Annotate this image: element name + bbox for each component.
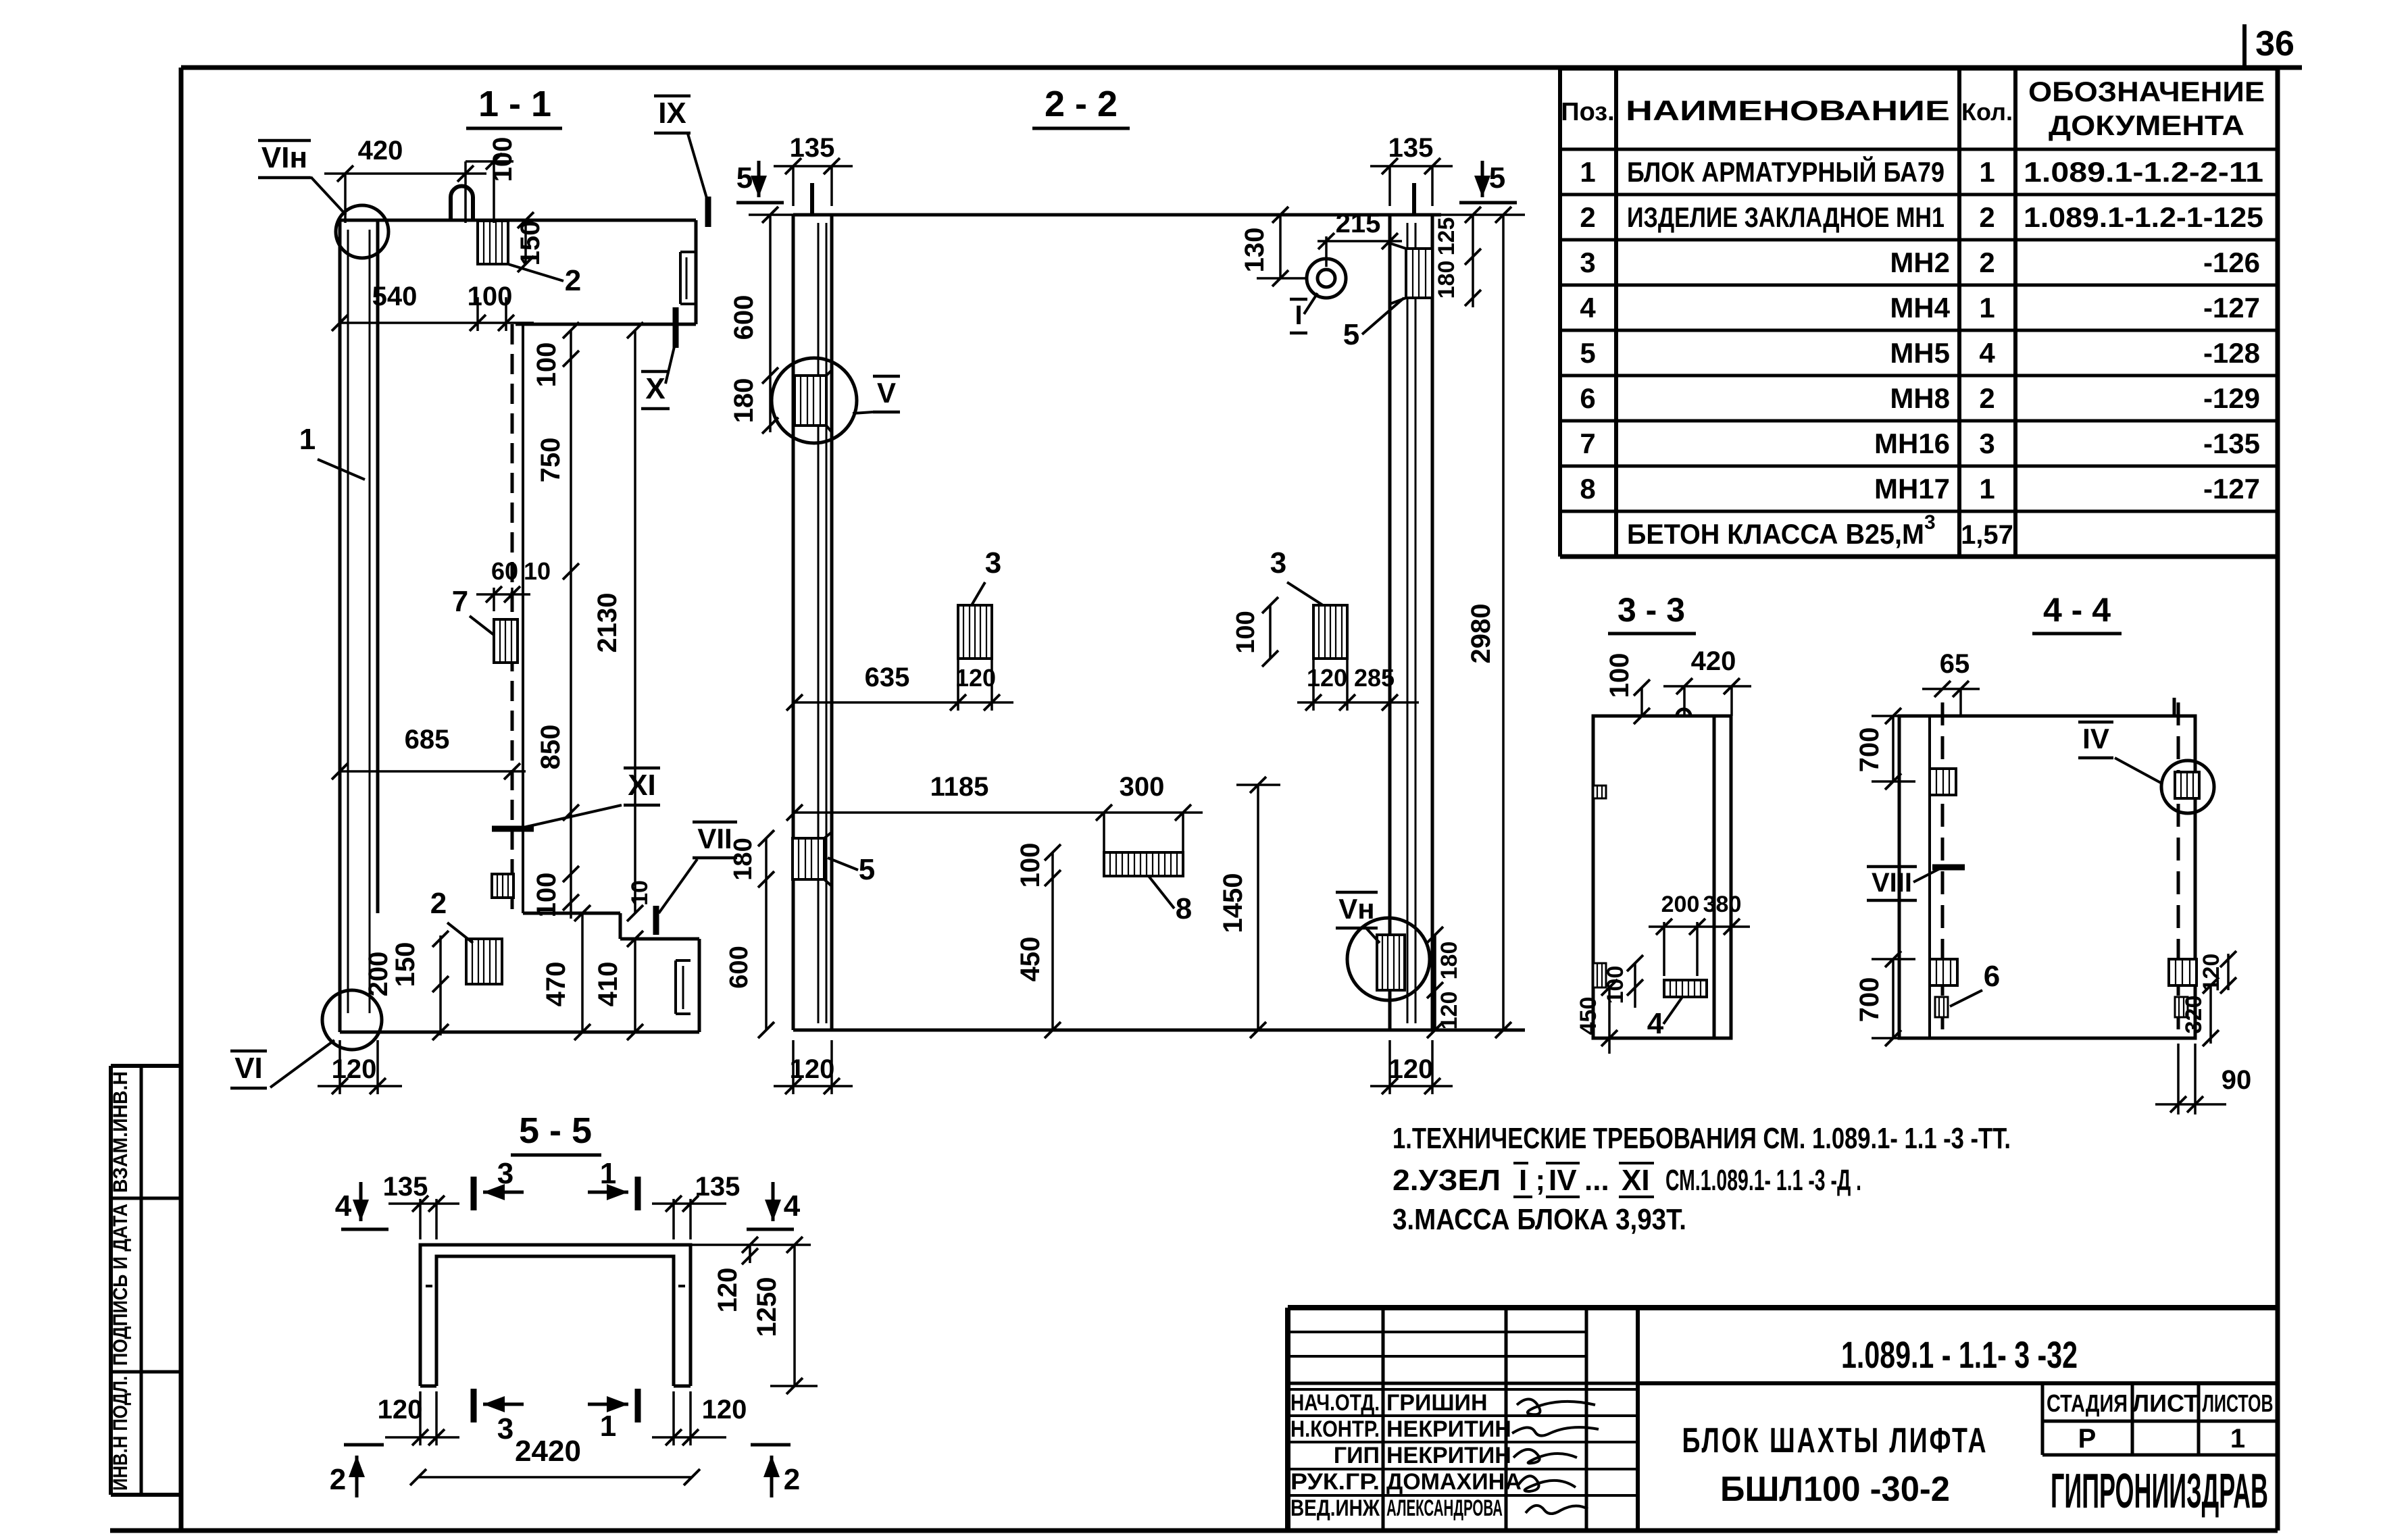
title stage grid xyxy=(2041,1383,2045,1455)
svg-text:215: 215 xyxy=(1336,209,1381,238)
svg-text:VI: VI xyxy=(234,1052,263,1085)
dim 135 right (2-2) xyxy=(1388,166,1391,206)
svg-text:3: 3 xyxy=(497,1412,513,1445)
svg-text:410: 410 xyxy=(593,962,623,1007)
svg-text:ЛИСТ: ЛИСТ xyxy=(2132,1389,2199,1417)
section 4-4 inner wall face xyxy=(1928,716,1931,1038)
sheet frame xyxy=(181,66,2302,70)
plate small below 6 xyxy=(1935,997,1948,1017)
svg-text:XI: XI xyxy=(1622,1164,1650,1197)
svg-text:2 - 2: 2 - 2 xyxy=(1045,84,1118,124)
svg-text:200: 200 xyxy=(363,952,393,997)
svg-text:1: 1 xyxy=(1979,473,1995,505)
dim 2130 (1-1) xyxy=(634,330,636,913)
dim 215 (2-2) xyxy=(1325,236,1328,267)
svg-text:120: 120 xyxy=(378,1395,423,1424)
svg-text:IV: IV xyxy=(1549,1164,1577,1197)
plate 8 (MN17) xyxy=(1104,852,1183,876)
plate mid small (MN16) xyxy=(492,874,513,898)
weld tick VIII xyxy=(1932,865,1965,871)
svg-text:120: 120 xyxy=(955,664,996,692)
svg-text:МН2: МН2 xyxy=(1890,247,1950,278)
node circle V xyxy=(772,358,857,443)
svg-text:VII: VII xyxy=(697,823,732,854)
svg-text:3.МАССА БЛОКА 3,93Т.: 3.МАССА БЛОКА 3,93Т. xyxy=(1393,1203,1686,1236)
svg-text:IV: IV xyxy=(2082,723,2109,754)
section 2-2 bottom edge xyxy=(793,1029,1525,1032)
dim chain right of hidden line (100/750/850/100) xyxy=(570,330,572,919)
weld tick XI xyxy=(492,826,534,832)
svg-text:470: 470 xyxy=(541,962,571,1007)
svg-text:НАЧ.ОТД.: НАЧ.ОТД. xyxy=(1290,1390,1380,1416)
dim 600/180 left top (2-2) xyxy=(769,215,772,432)
dim 120/285 (2-2) xyxy=(1297,701,1419,704)
svg-text:8: 8 xyxy=(1580,473,1595,505)
dim 135 right (5-5) xyxy=(672,1199,675,1239)
svg-text:ИЗДЕЛИЕ ЗАКЛАДНОЕ МН1: ИЗДЕЛИЕ ЗАКЛАДНОЕ МН1 xyxy=(1627,201,1945,233)
svg-text:100: 100 xyxy=(1603,966,1628,1004)
stamp column box xyxy=(111,1064,181,1068)
plate 6 (4-4) xyxy=(1930,959,1957,985)
plate 7 (MN16) xyxy=(494,619,518,663)
dim 410 (1-1) xyxy=(634,939,636,1032)
svg-text:2: 2 xyxy=(565,264,581,297)
svg-text:5: 5 xyxy=(1580,337,1595,369)
svg-text:БШЛ100 -30-2: БШЛ100 -30-2 xyxy=(1720,1470,1950,1509)
weld tick IX xyxy=(705,197,711,227)
section 1-1 bottom flange end bracket xyxy=(676,959,691,962)
dim 120 bottom-right (5-5) xyxy=(672,1391,675,1445)
svg-text:65: 65 xyxy=(1940,649,1970,679)
node circle VIn xyxy=(336,205,388,258)
svg-text:5: 5 xyxy=(1489,161,1505,195)
section 2-2 left wall xyxy=(792,215,795,1030)
svg-text:450: 450 xyxy=(1015,937,1045,982)
dim 100 top (1-1) xyxy=(493,161,495,223)
svg-text:2: 2 xyxy=(1979,382,1995,414)
svg-text:420: 420 xyxy=(358,136,403,165)
svg-text:120: 120 xyxy=(713,1268,743,1313)
svg-text:100: 100 xyxy=(488,137,518,182)
section 4-4 hidden lines xyxy=(1941,702,1945,1038)
svg-text:СМ.1.089.1- 1.1 -3 -Д .: СМ.1.089.1- 1.1 -3 -Д . xyxy=(1665,1164,1861,1197)
page number 36 box tick xyxy=(2242,24,2247,68)
svg-text:2: 2 xyxy=(1979,201,1995,233)
svg-text:135: 135 xyxy=(383,1172,428,1202)
svg-text:1: 1 xyxy=(600,1410,616,1443)
plate 3-3 edge a xyxy=(1593,786,1606,798)
plate 3 left (MN2) xyxy=(958,605,992,659)
dim 470 (1-1) xyxy=(581,913,584,1032)
svg-text:ПОДПИСЬ И ДАТА: ПОДПИСЬ И ДАТА xyxy=(109,1204,132,1366)
svg-text:МН16: МН16 xyxy=(1874,428,1950,459)
svg-text:4: 4 xyxy=(784,1189,801,1223)
svg-text:VIII: VIII xyxy=(1872,868,1912,898)
plate small lower-right xyxy=(2175,997,2188,1017)
svg-text:МН8: МН8 xyxy=(1890,382,1950,414)
plate 4-4 upper-left xyxy=(1930,769,1956,795)
svg-text:6: 6 xyxy=(1984,960,2000,993)
svg-text:135: 135 xyxy=(790,133,835,163)
svg-text:5 - 5: 5 - 5 xyxy=(519,1110,592,1151)
dim 120/1250 right (5-5) xyxy=(749,1245,751,1263)
plate 2 bottom (MN1) xyxy=(466,939,502,984)
dim 135 left (5-5) xyxy=(419,1199,422,1239)
section 1-1 hidden inner edge xyxy=(511,324,514,913)
svg-text:4 - 4: 4 - 4 xyxy=(2043,591,2111,629)
svg-text:НАИМЕНОВАНИЕ: НАИМЕНОВАНИЕ xyxy=(1626,95,1950,126)
svg-text:135: 135 xyxy=(1388,133,1434,163)
svg-text:Vн: Vн xyxy=(1338,893,1374,925)
svg-text:4: 4 xyxy=(1647,1007,1664,1040)
title block designation box line xyxy=(1638,1381,2278,1385)
svg-text:РУК.ГР.: РУК.ГР. xyxy=(1290,1469,1380,1495)
svg-text:I: I xyxy=(1295,301,1302,330)
svg-text:700: 700 xyxy=(1855,727,1884,773)
svg-text:1: 1 xyxy=(1979,292,1995,324)
svg-text:100: 100 xyxy=(532,342,561,388)
dim 450 (3-3) xyxy=(1608,987,1611,1054)
section 3-3 outline xyxy=(1593,716,1731,1038)
parts table grid xyxy=(1560,66,2278,71)
marker 1 bottom xyxy=(635,1389,641,1422)
svg-text:90: 90 xyxy=(2222,1065,2252,1095)
svg-text:НЕКРИТИН: НЕКРИТИН xyxy=(1386,1416,1511,1442)
section 5-5 channel xyxy=(420,1245,691,1386)
node circle I (lifting loop) xyxy=(1307,259,1346,298)
svg-text:100: 100 xyxy=(532,873,561,918)
section 3-3 loop xyxy=(1677,709,1690,716)
section 1-1 left wall xyxy=(338,220,342,1032)
svg-text:120: 120 xyxy=(332,1054,377,1084)
svg-text:100: 100 xyxy=(468,282,513,311)
svg-text:VIн: VIн xyxy=(261,141,307,174)
dim 2420 (5-5) xyxy=(418,1476,692,1479)
plate 3 right (MN2) xyxy=(1313,605,1347,659)
svg-text:1.089.1 - 1.1- 3 -32: 1.089.1 - 1.1- 3 -32 xyxy=(1841,1333,2078,1376)
svg-text:2980: 2980 xyxy=(1466,604,1496,664)
svg-text:100: 100 xyxy=(1605,653,1634,698)
svg-text:10: 10 xyxy=(524,557,551,585)
lifting loop 1-1 xyxy=(449,197,453,220)
svg-text:I ;: I ; xyxy=(1519,1164,1545,1197)
svg-text:3: 3 xyxy=(1979,428,1995,459)
svg-text:Р: Р xyxy=(2078,1424,2097,1454)
svg-text:ВЗАМ.ИНВ.Н: ВЗАМ.ИНВ.Н xyxy=(109,1071,132,1193)
dim 60/10 (plate7) xyxy=(493,588,495,611)
svg-text:3: 3 xyxy=(985,546,1001,580)
dim 1450 (2-2) xyxy=(1257,785,1259,1030)
dim 135 left (2-2) xyxy=(792,166,795,206)
svg-text:1450: 1450 xyxy=(1218,873,1248,933)
dim 180/120 right bottom (2-2) xyxy=(1434,935,1436,1030)
dim 100/450 (plate8) xyxy=(1051,852,1054,1030)
svg-text:ДОМАХИНА: ДОМАХИНА xyxy=(1386,1469,1522,1495)
svg-text:МН5: МН5 xyxy=(1890,337,1950,369)
weld tick VII xyxy=(653,906,659,935)
svg-text:2420: 2420 xyxy=(515,1435,581,1468)
svg-text:2: 2 xyxy=(430,887,447,920)
marker 3 bottom xyxy=(471,1389,477,1422)
svg-text:1: 1 xyxy=(600,1157,616,1190)
svg-text:150: 150 xyxy=(391,942,420,987)
svg-text:600: 600 xyxy=(725,946,753,988)
svg-text:125: 125 xyxy=(1434,217,1459,256)
svg-text:-128: -128 xyxy=(2203,337,2260,369)
section 2-2 top edge xyxy=(793,213,1441,217)
svg-text:-127: -127 xyxy=(2203,292,2260,324)
dim 420 (1-1) xyxy=(344,174,347,223)
svg-text:180: 180 xyxy=(1436,942,1462,980)
svg-text:750: 750 xyxy=(536,438,566,483)
svg-text:120: 120 xyxy=(702,1395,747,1424)
svg-text:-126: -126 xyxy=(2203,247,2260,278)
svg-text:100: 100 xyxy=(1232,611,1260,653)
svg-text:3: 3 xyxy=(1580,247,1595,278)
svg-text:5: 5 xyxy=(1343,318,1359,351)
svg-text:540: 540 xyxy=(372,282,418,311)
svg-text:1: 1 xyxy=(1580,156,1595,188)
section 2-2 loop ticks xyxy=(810,183,814,215)
svg-text:450: 450 xyxy=(1576,997,1601,1035)
svg-text:БЛОК ШАХТЫ ЛИФТА: БЛОК ШАХТЫ ЛИФТА xyxy=(1682,1421,1988,1460)
plate 4 (3-3) xyxy=(1664,980,1707,997)
svg-text:1250: 1250 xyxy=(752,1277,782,1337)
dim 700 top (4-4) xyxy=(1892,716,1895,781)
dim 65 (4-4) xyxy=(1959,688,1962,716)
dim 420 (3-3) xyxy=(1683,686,1686,716)
svg-text:7: 7 xyxy=(1580,428,1595,459)
section 1-1 top flange end bracket xyxy=(680,251,696,253)
svg-text:180: 180 xyxy=(729,838,757,880)
svg-text:Поз.: Поз. xyxy=(1561,98,1614,126)
dim 200/380 (3-3) xyxy=(1663,922,1665,976)
svg-text:60: 60 xyxy=(491,557,518,585)
svg-text:1.089.1-1.2-2-11: 1.089.1-1.2-2-11 xyxy=(2024,156,2263,188)
svg-text:IX: IX xyxy=(658,97,686,130)
title block columns xyxy=(1382,1308,1385,1531)
node circle Vn xyxy=(1347,918,1430,1000)
weld tick X xyxy=(673,307,679,348)
dim 100 (3-3 left) xyxy=(1634,963,1636,1008)
svg-text:36: 36 xyxy=(2255,24,2294,63)
marker 2 right xyxy=(751,1443,791,1447)
section 1-1 bottom flange xyxy=(523,912,620,915)
svg-text:180: 180 xyxy=(1434,261,1459,299)
svg-text:5: 5 xyxy=(859,853,875,886)
dim 1185/300 (2-2) xyxy=(795,811,1203,814)
svg-text:120: 120 xyxy=(790,1054,835,1084)
svg-text:НЕКРИТИН: НЕКРИТИН xyxy=(1386,1443,1511,1468)
svg-text:БЛОК АРМАТУРНЫЙ БА79: БЛОК АРМАТУРНЫЙ БА79 xyxy=(1627,155,1945,188)
svg-text:300: 300 xyxy=(1120,772,1165,802)
marker 1 top xyxy=(635,1177,641,1210)
svg-text:2130: 2130 xyxy=(593,593,622,653)
svg-text:700: 700 xyxy=(1855,977,1884,1023)
plate 2 top (MN1) xyxy=(478,221,508,264)
marker 4 right xyxy=(772,1182,775,1221)
svg-text:ИНВ.Н ПОДЛ.: ИНВ.Н ПОДЛ. xyxy=(109,1376,132,1491)
title block left rows xyxy=(1288,1331,1586,1333)
svg-text:2.УЗЕЛ: 2.УЗЕЛ xyxy=(1393,1164,1501,1197)
plate IV (MN8) xyxy=(2175,772,2199,798)
section marker 5 down-right xyxy=(1481,161,1484,197)
svg-text:1: 1 xyxy=(2230,1424,2245,1454)
svg-text:2: 2 xyxy=(784,1463,800,1496)
svg-text:ГРИШИН: ГРИШИН xyxy=(1386,1390,1488,1416)
svg-text:1: 1 xyxy=(299,423,316,456)
svg-text:АЛЕКСАНДРОВА: АЛЕКСАНДРОВА xyxy=(1386,1495,1503,1521)
svg-text:8: 8 xyxy=(1176,892,1192,925)
svg-text:635: 635 xyxy=(865,663,910,692)
section 5-5 leg marks xyxy=(426,1285,432,1287)
svg-text:ДОКУМЕНТА: ДОКУМЕНТА xyxy=(2049,109,2244,141)
section 4-4 outline xyxy=(1899,716,2195,1038)
svg-text:МН17: МН17 xyxy=(1874,473,1950,505)
svg-text:5: 5 xyxy=(736,161,753,195)
svg-text:850: 850 xyxy=(536,725,566,770)
dim 120 below left wall (2-2) xyxy=(792,1040,795,1094)
svg-text:10: 10 xyxy=(627,880,653,906)
svg-text:320: 320 xyxy=(2181,996,2207,1034)
svg-text:3: 3 xyxy=(1924,511,1936,534)
dim 90 (4-4 bottom) xyxy=(2177,1044,2180,1114)
dim 540/100 (1-1) xyxy=(340,322,534,324)
plate 4-4 lower-right xyxy=(2169,959,2197,985)
svg-text:ГИПРОНИИЗДРАВ: ГИПРОНИИЗДРАВ xyxy=(2051,1464,2268,1518)
svg-text:3: 3 xyxy=(497,1157,513,1190)
svg-text:2: 2 xyxy=(1580,201,1595,233)
dim 320 (4-4 right) xyxy=(2209,985,2212,1044)
svg-text:4: 4 xyxy=(1580,292,1596,324)
plate 3-3 edge b xyxy=(1593,963,1606,987)
svg-text:150: 150 xyxy=(516,221,545,266)
svg-text:1,57: 1,57 xyxy=(1961,520,2013,550)
svg-text:100: 100 xyxy=(1015,843,1045,888)
svg-text:V: V xyxy=(877,377,896,409)
svg-text:2: 2 xyxy=(1979,247,1995,278)
plate 5 top-right (MN5) xyxy=(1406,249,1432,298)
svg-text:3: 3 xyxy=(1270,546,1286,580)
svg-text:380: 380 xyxy=(1703,892,1742,917)
marker 3 top xyxy=(471,1177,477,1210)
plate V (MN5) xyxy=(795,376,826,426)
dim 685 (1-1) xyxy=(340,770,526,773)
svg-text:ГИП: ГИП xyxy=(1334,1443,1380,1468)
svg-text:МН4: МН4 xyxy=(1890,292,1950,324)
svg-text:600: 600 xyxy=(729,295,759,340)
svg-text:180: 180 xyxy=(729,378,759,423)
svg-text:685: 685 xyxy=(405,725,450,754)
svg-text:120: 120 xyxy=(1307,664,1347,692)
node circle IV xyxy=(2161,761,2214,813)
dim 200/150 (plate2 bottom) xyxy=(439,935,442,1035)
svg-text:4: 4 xyxy=(1979,337,1995,369)
dim 130 (2-2) xyxy=(1279,215,1282,278)
svg-text:3 - 3: 3 - 3 xyxy=(1617,591,1685,629)
svg-text:-127: -127 xyxy=(2203,473,2260,505)
svg-text:Н.КОНТР.: Н.КОНТР. xyxy=(1290,1416,1380,1442)
dim 120 (4-4 right) xyxy=(2227,954,2230,990)
svg-text:X: X xyxy=(645,372,665,405)
svg-text:-129: -129 xyxy=(2203,382,2260,414)
section 1-1 top flange xyxy=(340,219,696,222)
svg-text:2: 2 xyxy=(330,1463,346,1496)
dim 100 right plate3 xyxy=(1269,605,1272,659)
svg-text:7: 7 xyxy=(452,585,468,618)
svg-text:Кол.: Кол. xyxy=(1961,98,2013,126)
svg-text:420: 420 xyxy=(1691,646,1736,676)
dim 125/180 right (2-2) xyxy=(1472,215,1474,307)
title block outer xyxy=(1288,1305,2278,1310)
dim 700 bottom (4-4) xyxy=(1892,959,1895,1038)
svg-text:XI: XI xyxy=(628,769,656,802)
marker 2 left xyxy=(344,1443,384,1447)
svg-text:ОБОЗНАЧЕНИЕ: ОБОЗНАЧЕНИЕ xyxy=(2028,76,2265,107)
svg-text:ВЕД.ИНЖ: ВЕД.ИНЖ xyxy=(1290,1495,1380,1521)
svg-text:130: 130 xyxy=(1240,228,1270,273)
dim 2980 (2-2) xyxy=(1502,215,1505,1030)
svg-text:135: 135 xyxy=(695,1172,741,1202)
plate Vn (MN5) xyxy=(1377,935,1405,990)
dim 180/600 left bottom (2-2) xyxy=(765,838,768,1030)
plate 5 left-mid (MN5) xyxy=(793,838,824,879)
svg-text:СТАДИЯ: СТАДИЯ xyxy=(2047,1389,2128,1417)
svg-text:1185: 1185 xyxy=(930,772,989,802)
svg-text:4: 4 xyxy=(335,1189,352,1223)
dim 635/120 (2-2) xyxy=(795,701,1013,704)
dim 150 (plate2) xyxy=(524,220,527,264)
dim 100 (3-3 top) xyxy=(1640,688,1643,716)
dim 120 bottom-left (5-5) xyxy=(419,1391,422,1445)
svg-text:120: 120 xyxy=(1436,992,1462,1030)
dim 120 (1-1 bottom) xyxy=(338,1040,341,1094)
node circle VI xyxy=(322,990,382,1050)
svg-text:120: 120 xyxy=(1388,1054,1434,1084)
svg-text:...: ... xyxy=(1584,1164,1609,1197)
svg-text:1.ТЕХНИЧЕСКИЕ ТРЕБОВАНИЯ СМ.: 1.ТЕХНИЧЕСКИЕ ТРЕБОВАНИЯ СМ. 1.089.1- 1.… xyxy=(1393,1122,2011,1155)
svg-text:285: 285 xyxy=(1354,664,1395,692)
dim 120 below right wall (2-2) xyxy=(1388,1040,1391,1094)
svg-text:200: 200 xyxy=(1661,892,1700,917)
svg-text:-135: -135 xyxy=(2203,428,2260,459)
section 2-2 right wall xyxy=(1431,215,1434,1030)
svg-text:1.089.1-1.2-1-125: 1.089.1-1.2-1-125 xyxy=(2024,201,2263,233)
svg-text:БЕТОН КЛАССА В25,М: БЕТОН КЛАССА В25,М xyxy=(1627,518,1924,550)
title signatures xyxy=(1517,1399,1595,1414)
svg-text:1: 1 xyxy=(1979,156,1995,188)
svg-text:ЛИСТОВ: ЛИСТОВ xyxy=(2203,1389,2274,1417)
svg-text:1 - 1: 1 - 1 xyxy=(478,84,551,124)
section 4-4 top tick xyxy=(2173,698,2176,716)
svg-text:6: 6 xyxy=(1580,382,1595,414)
